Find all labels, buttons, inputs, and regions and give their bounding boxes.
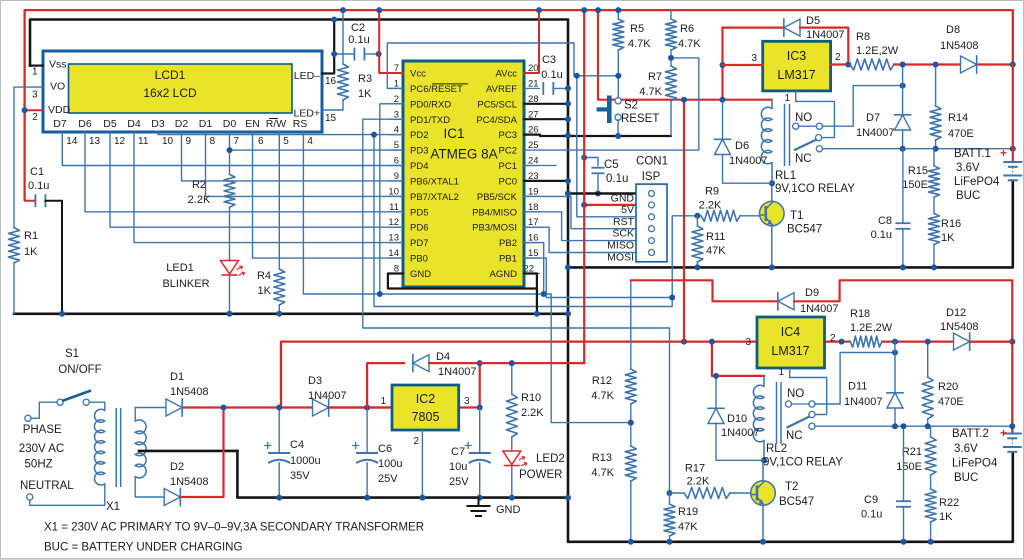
wire LCD EN to IC1 PB0 [253, 132, 404, 258]
svg-text:470E: 470E [938, 396, 964, 408]
capacitor C2 [334, 53, 354, 55]
wire ground bus upper (black) [14, 312, 569, 315]
svg-text:MISO: MISO [607, 240, 634, 252]
svg-text:ISP: ISP [642, 171, 661, 183]
svg-text:IC4: IC4 [781, 325, 801, 339]
wire LCD D4 to IC1 PD7 [134, 132, 403, 243]
svg-text:MOSI: MOSI [607, 252, 634, 264]
resistor R22 [930, 475, 932, 489]
capacitor C3 on AVREF [542, 82, 544, 95]
svg-text:1N4007: 1N4007 [806, 29, 845, 41]
capacitor C4 [278, 408, 280, 453]
svg-text:PB4/MISO: PB4/MISO [472, 207, 517, 218]
resistor R11 [696, 216, 698, 226]
wire LCD Vss pin 1 stub [30, 64, 43, 66]
diode D2 [164, 489, 180, 506]
svg-text:1K: 1K [258, 285, 272, 297]
svg-text:D1: D1 [199, 118, 213, 130]
relay RL2 coil [753, 385, 764, 442]
svg-text:1: 1 [784, 93, 790, 104]
svg-text:RESET: RESET [621, 113, 659, 125]
svg-text:R3: R3 [358, 73, 372, 85]
svg-text:R14: R14 [948, 112, 968, 124]
resistor R16 [933, 197, 935, 213]
svg-text:LED2: LED2 [536, 453, 565, 465]
svg-text:230V AC: 230V AC [19, 443, 64, 455]
wire LCD RS line [303, 132, 630, 423]
svg-text:LiFePO4: LiFePO4 [954, 176, 1000, 188]
resistor R10 [511, 363, 513, 394]
svg-text:R20: R20 [938, 381, 958, 393]
svg-text:PC4/SDA: PC4/SDA [476, 115, 517, 126]
wire PB4/MISO to CON1 [524, 212, 636, 241]
svg-text:PD0/RXD: PD0/RXD [410, 99, 451, 110]
svg-text:R1: R1 [24, 230, 38, 242]
svg-text:25V: 25V [449, 476, 469, 488]
svg-text:3.6V: 3.6V [956, 162, 980, 174]
svg-text:PC6/RESET: PC6/RESET [410, 84, 463, 95]
wire ground bus IC2 section (black) [237, 451, 569, 498]
wire IC3 pin3 (red) [723, 64, 763, 66]
svg-text:BUC: BUC [954, 472, 978, 484]
svg-text:IC3: IC3 [787, 49, 807, 63]
diode D1 [166, 399, 182, 416]
capacitor C6 [366, 408, 368, 453]
svg-text:C9: C9 [864, 494, 878, 506]
resistor R19 [667, 490, 673, 496]
IC3 LM317 box [763, 41, 831, 91]
svg-text:LCD1: LCD1 [155, 68, 186, 82]
svg-text:47K: 47K [678, 521, 698, 533]
svg-text:1: 1 [32, 67, 38, 78]
wire PD1/TXD riser to T2 drive [363, 119, 670, 493]
svg-text:2: 2 [32, 112, 38, 123]
wire IC3 feed riser (red) [683, 100, 685, 342]
wire Vcc feed [379, 10, 403, 73]
diode D5 [723, 27, 785, 29]
wire 5V riser (red) [583, 10, 585, 363]
svg-text:D8: D8 [946, 24, 960, 36]
svg-text:VDD: VDD [48, 104, 71, 116]
wire CON1 GND (black) [568, 192, 636, 194]
svg-text:PD7: PD7 [410, 238, 428, 249]
wire AGND battery bus (black) [568, 181, 1013, 268]
wire RL2 feed (red) [712, 342, 764, 376]
svg-text:R10: R10 [521, 392, 541, 404]
svg-text:C3: C3 [542, 54, 556, 66]
svg-text:ATMEG 8A: ATMEG 8A [430, 147, 497, 162]
svg-text:14: 14 [66, 136, 78, 147]
wire IC4 output rail (red) [825, 340, 851, 342]
svg-text:16x2 LCD: 16x2 LCD [143, 86, 197, 100]
wire AGND branch (black) [524, 274, 537, 289]
svg-text:50HZ: 50HZ [25, 459, 53, 471]
wire IC3 riser (red) [721, 28, 723, 100]
svg-text:R6: R6 [680, 23, 694, 35]
wire IC4 pin1 to relay pole [790, 368, 827, 415]
wire PC3 to S2/R7 (black) [524, 135, 671, 136]
IC4 LM317 box [757, 317, 825, 368]
svg-text:1.2E,2W: 1.2E,2W [856, 45, 899, 57]
svg-text:10u: 10u [449, 461, 467, 473]
svg-text:8: 8 [210, 136, 216, 147]
svg-text:PD6: PD6 [410, 223, 428, 234]
svg-text:100u: 100u [378, 458, 402, 470]
svg-text:S1: S1 [65, 348, 79, 360]
capacitor C1 [25, 199, 36, 201]
svg-text:BUC: BUC [956, 190, 980, 202]
wire 5V to R10/riser (red) [480, 362, 585, 364]
svg-text:2.2K: 2.2K [521, 407, 544, 419]
wire LED- to ground rail [322, 20, 334, 74]
svg-text:T2: T2 [785, 481, 798, 493]
capacitor C7 [479, 408, 481, 453]
transistor T1 BC547 [771, 183, 773, 201]
resistor R7 [666, 66, 677, 101]
svg-text:D5: D5 [806, 15, 820, 27]
wire PC5/SCL to ground (black) [524, 103, 568, 105]
resistor R8 [850, 59, 894, 70]
svg-text:1K: 1K [941, 232, 955, 244]
svg-text:9: 9 [186, 136, 192, 147]
diode D9 [778, 293, 794, 310]
svg-text:PB7/XTAL2: PB7/XTAL2 [410, 192, 459, 203]
svg-text:LM317: LM317 [777, 68, 815, 82]
svg-text:R16: R16 [941, 218, 961, 230]
transistor T2 BC547 [762, 460, 764, 480]
svg-text:6: 6 [258, 136, 264, 147]
resistor R9 [694, 213, 700, 219]
svg-text:PB0: PB0 [410, 254, 428, 265]
svg-text:+: + [1000, 426, 1007, 440]
svg-text:PB3/MOSI: PB3/MOSI [472, 223, 517, 234]
svg-text:1N4007: 1N4007 [856, 127, 895, 139]
wire PD0/RXD riser [380, 104, 403, 294]
svg-text:PD2: PD2 [410, 130, 428, 141]
transformer X1 primary [94, 409, 104, 485]
svg-text:BC547: BC547 [779, 496, 814, 508]
svg-text:X1 = 230V AC PRIMARY TO 9V–0–9: X1 = 230V AC PRIMARY TO 9V–0–9V,3A SECON… [44, 522, 424, 534]
svg-text:IC1: IC1 [443, 126, 464, 141]
transformer X1 secondary [135, 420, 146, 478]
wire GND pin 8 (black) [388, 274, 537, 314]
LED1 blinker [221, 261, 239, 275]
svg-text:150E: 150E [902, 179, 928, 191]
resistor R6 [666, 19, 677, 50]
svg-text:POWER: POWER [519, 469, 562, 481]
svg-text:16: 16 [325, 76, 337, 87]
svg-text:0.1u: 0.1u [28, 180, 49, 192]
svg-text:3: 3 [745, 337, 751, 348]
wire PC2 to R6/R7 divider [540, 58, 699, 150]
resistor R1 [9, 228, 20, 264]
svg-text:R13: R13 [592, 452, 612, 464]
wire PD2 riser to T1 drive [374, 135, 697, 307]
svg-text:D3: D3 [151, 118, 165, 130]
ground symbol [478, 498, 480, 506]
wire unregulated DC rail (red) [281, 342, 757, 408]
svg-text:AVREF: AVREF [486, 84, 517, 95]
svg-text:D4: D4 [127, 118, 141, 130]
svg-text:BATT.2: BATT.2 [952, 428, 989, 440]
svg-text:C2: C2 [351, 22, 365, 34]
svg-text:2: 2 [830, 333, 836, 344]
wire RL2 NO to output node [815, 353, 895, 405]
svg-text:Vcc: Vcc [410, 69, 426, 80]
svg-text:C6: C6 [378, 443, 392, 455]
svg-text:1K: 1K [24, 246, 38, 258]
svg-text:C4: C4 [290, 439, 304, 451]
wire secondary top to D1 [135, 408, 166, 422]
svg-text:PC0: PC0 [499, 176, 517, 187]
IC1 ATmega8A box [403, 61, 524, 287]
svg-text:470E: 470E [948, 128, 974, 140]
svg-text:D7: D7 [53, 118, 67, 130]
svg-text:PB5/SCK: PB5/SCK [477, 192, 518, 203]
svg-text:1: 1 [778, 367, 784, 378]
svg-text:0.1u: 0.1u [348, 34, 369, 46]
diode D10 flyback [715, 376, 717, 409]
svg-text:9V,1CO RELAY: 9V,1CO RELAY [763, 457, 843, 469]
svg-text:PD4: PD4 [410, 161, 428, 172]
svg-text:D6: D6 [735, 140, 749, 152]
wire RL1 NO to output node [822, 86, 902, 127]
wire +5V top rail (red) [25, 10, 1013, 199]
wire PB1 sense line [524, 258, 672, 297]
svg-text:35V: 35V [290, 470, 310, 482]
resistor R12 [630, 280, 632, 369]
svg-text:D10: D10 [727, 413, 747, 425]
capacitor C5 [584, 158, 598, 166]
svg-text:D11: D11 [848, 381, 867, 393]
resistor R4 [274, 269, 285, 305]
svg-text:D9: D9 [805, 287, 819, 299]
svg-text:R11: R11 [706, 231, 725, 243]
svg-text:R19: R19 [678, 506, 698, 518]
battery BATT.1 [1012, 65, 1014, 163]
svg-text:PHASE: PHASE [23, 424, 62, 436]
svg-text:3.6V: 3.6V [954, 443, 978, 455]
svg-text:1: 1 [380, 396, 386, 407]
svg-text:1N5408: 1N5408 [170, 476, 209, 488]
LCD1 module box [43, 51, 322, 132]
wire LCD D5 to IC1 PD6 [110, 132, 403, 227]
wire RL1 NC to battery node [822, 148, 1013, 150]
svg-text:+: + [1000, 146, 1007, 160]
svg-text:2.2K: 2.2K [188, 194, 211, 206]
diode D11 [894, 342, 896, 393]
svg-text:LED–: LED– [294, 70, 320, 82]
svg-text:1N4007: 1N4007 [800, 303, 839, 315]
svg-text:PB6/XTAL1: PB6/XTAL1 [410, 176, 459, 187]
wire centre tap (black) [139, 450, 237, 453]
svg-text:BLINKER: BLINKER [162, 278, 209, 290]
svg-text:PD1/TXD: PD1/TXD [410, 115, 450, 126]
relay RL1 coil [761, 107, 772, 164]
svg-text:R18: R18 [850, 308, 870, 320]
svg-text:4.7K: 4.7K [591, 467, 614, 479]
connector CON1 ISP [636, 184, 667, 262]
svg-text:PD5: PD5 [410, 207, 428, 218]
svg-text:R17: R17 [685, 463, 705, 475]
terminal PHASE [25, 415, 31, 421]
svg-text:1K: 1K [358, 88, 372, 100]
wire IC3 pin1 to relay pole [796, 91, 835, 138]
wire 9V feed to IC3 (red) [598, 10, 772, 100]
svg-text:X1: X1 [106, 501, 120, 513]
svg-text:0.1u: 0.1u [871, 229, 892, 241]
svg-text:AVcc: AVcc [496, 69, 518, 80]
wire LCD VO to R1 [14, 87, 43, 227]
wire LCD D3 to IC1 PD2 [158, 132, 403, 135]
svg-text:1N5408: 1N5408 [170, 386, 209, 398]
svg-text:R5: R5 [630, 23, 644, 35]
LCD1 display area [69, 64, 293, 113]
svg-text:0.1u: 0.1u [606, 173, 628, 185]
svg-text:PC2: PC2 [499, 146, 517, 157]
svg-text:4.7K: 4.7K [628, 38, 651, 50]
svg-text:0.1u: 0.1u [541, 69, 562, 81]
wire red branch to IC4 output node [631, 280, 778, 301]
svg-text:4.7K: 4.7K [678, 38, 701, 50]
svg-text:NC: NC [795, 153, 812, 165]
svg-text:C7: C7 [451, 446, 465, 458]
svg-text:12: 12 [114, 136, 126, 147]
svg-text:47K: 47K [706, 245, 726, 257]
svg-text:BATT.1: BATT.1 [954, 148, 991, 160]
wire PB5/SCK to CON1 [524, 196, 636, 228]
wire LCD D6 to IC1 PD5 [85, 132, 403, 212]
wire PC1 stub [524, 165, 556, 167]
svg-text:NO: NO [795, 112, 812, 124]
wire PC0 stub (black) [524, 180, 568, 182]
svg-text:1000u: 1000u [290, 455, 321, 467]
resistor R20 [927, 342, 929, 377]
diode D6 flyback [722, 100, 724, 140]
wire IC3 pin2 to R8 (red) [831, 63, 850, 65]
transformer X1 core [115, 408, 117, 487]
svg-text:PB2: PB2 [499, 238, 517, 249]
svg-text:1N4007: 1N4007 [721, 427, 760, 439]
svg-text:R15: R15 [908, 165, 928, 177]
wire D3 to IC2 [330, 406, 393, 408]
svg-text:2.2K: 2.2K [687, 476, 710, 488]
svg-text:VO: VO [50, 81, 65, 93]
svg-text:15: 15 [325, 113, 337, 124]
wire RST riser to CON1 [577, 76, 636, 217]
svg-text:PD3: PD3 [410, 146, 428, 157]
svg-text:D12: D12 [946, 307, 966, 319]
svg-text:BC547: BC547 [787, 224, 822, 236]
svg-text:25V: 25V [378, 473, 398, 485]
svg-text:PC3: PC3 [499, 130, 517, 141]
diode D4 bridge [367, 363, 404, 407]
svg-text:1N5408: 1N5408 [940, 321, 979, 333]
battery BATT.2 [1003, 433, 1022, 435]
svg-text:10: 10 [162, 136, 174, 147]
wire RL2 NC to battery node [815, 425, 1013, 427]
svg-text:S2: S2 [624, 100, 638, 112]
svg-text:C5: C5 [604, 159, 619, 171]
svg-text:5: 5 [283, 136, 289, 147]
wire LCD D2 to IC1 PB6 [182, 132, 404, 181]
svg-text:RL2: RL2 [766, 443, 787, 455]
diode D8 [961, 56, 977, 73]
wire LCD D1 to IC1 PB7 [206, 132, 404, 196]
svg-text:1.2E,2W: 1.2E,2W [850, 322, 893, 334]
switch S2 RESET [607, 96, 612, 124]
svg-text:CON1: CON1 [636, 156, 668, 168]
svg-text:0.1u: 0.1u [861, 509, 882, 521]
svg-text:PC1: PC1 [499, 161, 517, 172]
svg-text:D4: D4 [436, 351, 450, 363]
svg-text:3: 3 [751, 53, 757, 64]
svg-text:R2: R2 [192, 179, 206, 191]
svg-text:D1: D1 [170, 371, 184, 383]
svg-text:NO: NO [787, 388, 804, 400]
svg-text:3: 3 [464, 396, 470, 407]
wire rectifier output (red) [183, 406, 393, 408]
resistor R18 [839, 339, 845, 345]
svg-text:11: 11 [138, 136, 149, 147]
svg-text:T1: T1 [790, 210, 803, 222]
svg-text:4.7K: 4.7K [591, 390, 614, 402]
svg-text:4.7K: 4.7K [639, 86, 662, 98]
svg-text:2: 2 [835, 52, 841, 63]
wire PC4/SDA to ground (black) [524, 118, 568, 120]
svg-text:R9: R9 [705, 186, 719, 198]
svg-text:PC5/SCL: PC5/SCL [477, 99, 517, 110]
svg-text:NEUTRAL: NEUTRAL [20, 480, 74, 492]
svg-text:R22: R22 [939, 497, 959, 509]
svg-text:RS: RS [293, 118, 308, 130]
svg-text:C8: C8 [878, 215, 892, 227]
svg-text:RL1: RL1 [775, 170, 796, 182]
svg-text:D2: D2 [170, 461, 184, 473]
resistor R14 [935, 65, 937, 107]
wire LCD VDD stub [25, 109, 43, 111]
resistor R15 [933, 149, 935, 166]
svg-text:5V: 5V [621, 204, 634, 216]
svg-text:SCK: SCK [612, 228, 634, 240]
svg-text:1N4007: 1N4007 [729, 155, 768, 167]
svg-text:R8: R8 [856, 31, 870, 43]
svg-text:150E: 150E [896, 461, 922, 473]
svg-text:NC: NC [786, 430, 803, 442]
resistor R2 [224, 174, 235, 207]
svg-text:1K: 1K [939, 511, 953, 523]
svg-text:LED1: LED1 [166, 262, 194, 274]
svg-text:RST: RST [613, 216, 635, 228]
svg-text:GND: GND [410, 269, 431, 280]
resistor R3 [338, 64, 349, 100]
svg-text:1N4007: 1N4007 [438, 366, 477, 378]
wire PB2 to L1 [524, 243, 544, 294]
wire IC2 GND pin2 [421, 430, 423, 498]
svg-text:AGND: AGND [490, 269, 518, 280]
diode D3 [313, 399, 329, 416]
wire AVcc to 5V rail [524, 10, 539, 73]
resistor R5 [613, 19, 624, 50]
wire S1 to primary [89, 402, 105, 410]
capacitor C9 [903, 426, 905, 501]
wire LCD D0 to IC1 PD3 [230, 132, 404, 150]
svg-text:R/W: R/W [266, 118, 287, 130]
svg-text:D6: D6 [78, 118, 92, 130]
svg-text:IC2: IC2 [416, 392, 436, 406]
svg-text:9V,1CO RELAY: 9V,1CO RELAY [775, 183, 855, 195]
svg-text:ON/OFF: ON/OFF [58, 364, 101, 376]
